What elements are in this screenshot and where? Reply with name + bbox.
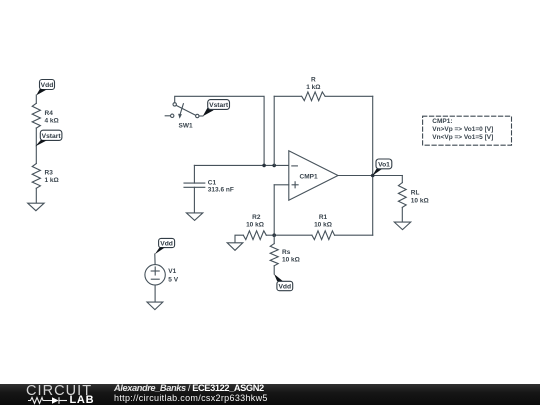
annotation note CMP1 behaviour xyxy=(423,116,512,145)
wire Vn net: C1 to op-amp inverting input xyxy=(194,164,288,166)
logo zigzag and diode xyxy=(28,396,68,405)
ground (below V1) xyxy=(147,302,163,310)
junction (Vp / R1 / R2 / Rs) xyxy=(272,233,276,237)
wire Vdd to R4 xyxy=(35,95,37,103)
ground (left of R2) xyxy=(227,243,243,251)
wire R loop top left xyxy=(274,95,301,97)
resistor RL xyxy=(398,176,428,223)
svg-text:Vstart: Vstart xyxy=(42,133,62,140)
svg-text:R4: R4 xyxy=(45,110,54,117)
svg-text:C1: C1 xyxy=(208,179,217,186)
wire op-amp output to RL xyxy=(338,175,402,177)
node Vdd (left branch label) xyxy=(36,80,54,96)
svg-text:SW1: SW1 xyxy=(179,122,193,129)
svg-text:R1: R1 xyxy=(319,214,328,221)
svg-text:RL: RL xyxy=(411,190,420,197)
wire R2 to junction xyxy=(266,234,274,236)
svg-text:4 kΩ: 4 kΩ xyxy=(45,118,59,125)
wire op-amp non-inverting input xyxy=(274,184,289,186)
junction (switch branch on Vn) xyxy=(262,164,266,168)
node Vstart (at switch) xyxy=(203,100,230,117)
svg-text:Vdd: Vdd xyxy=(160,241,173,248)
svg-text:313.6 nF: 313.6 nF xyxy=(208,187,234,194)
wire V1 to ground xyxy=(154,285,156,302)
ground (below C1) xyxy=(186,213,202,221)
svg-text:10 kΩ: 10 kΩ xyxy=(282,256,300,263)
wire SW1 top terminal up and over to Vn node xyxy=(175,96,264,165)
junction (R feedback branch on Vn) xyxy=(272,164,276,168)
wire Vdd label to V1 xyxy=(154,254,156,265)
svg-text:1 kΩ: 1 kΩ xyxy=(306,84,320,91)
wire Vp to R1 xyxy=(274,234,312,236)
resistor Rs xyxy=(270,235,300,274)
wire R4 to R3 xyxy=(35,128,37,163)
resistor R3 xyxy=(32,164,59,189)
svg-text:Vdd: Vdd xyxy=(41,82,54,89)
svg-text:1 kΩ: 1 kΩ xyxy=(45,177,59,184)
wire R3 to ground xyxy=(35,188,37,203)
wire SW1 throw terminal stub xyxy=(199,115,203,117)
svg-text:Vn>Vp => Vo1=0 [V]: Vn>Vp => Vo1=0 [V] xyxy=(432,126,493,133)
op-amp CMP1 xyxy=(289,151,338,200)
capacitor C1 xyxy=(184,165,234,212)
svg-text:5 V: 5 V xyxy=(168,277,178,284)
node Vdd (below Rs) xyxy=(274,274,293,291)
node Vstart (left branch label) xyxy=(35,130,62,146)
resistor R2 xyxy=(243,214,266,240)
svg-text:R: R xyxy=(311,77,316,84)
svg-text:R2: R2 xyxy=(252,214,261,221)
node Vdd (above V1) xyxy=(155,238,175,254)
junction (output node Vo1) xyxy=(371,174,375,178)
svg-text:CMP1:: CMP1: xyxy=(432,118,452,125)
node Vo1 label xyxy=(372,159,391,176)
svg-text:10 kΩ: 10 kΩ xyxy=(314,221,332,228)
svg-text:V1: V1 xyxy=(168,268,176,275)
voltage source V1 xyxy=(145,265,179,285)
svg-text:Rs: Rs xyxy=(282,249,291,256)
svg-text:R3: R3 xyxy=(45,170,54,177)
svg-text:Vo1: Vo1 xyxy=(378,162,390,169)
ground (below RL) xyxy=(394,222,410,230)
resistor R4 xyxy=(32,103,59,128)
wire Vp vertical down to R junction xyxy=(273,185,275,235)
svg-text:10 kΩ: 10 kΩ xyxy=(246,221,264,228)
resistor R1 xyxy=(312,214,335,240)
wire R1 to output vertical xyxy=(335,234,373,236)
wire R2 to ground jog xyxy=(235,235,243,243)
wire R loop left vertical xyxy=(273,96,275,165)
svg-text:Vn<Vp => Vo1=5 [V]: Vn<Vp => Vo1=5 [V] xyxy=(432,134,493,141)
svg-text:Vstart: Vstart xyxy=(209,102,229,109)
resistor R xyxy=(302,77,325,101)
svg-text:Vdd: Vdd xyxy=(278,284,291,291)
ground (left branch) xyxy=(28,203,44,211)
svg-text:CMP1: CMP1 xyxy=(300,174,318,181)
svg-text:10 kΩ: 10 kΩ xyxy=(411,198,429,205)
switch SW1 xyxy=(165,103,199,130)
wire right vertical (R to R1) xyxy=(372,96,374,235)
wire R loop top right xyxy=(325,95,373,97)
